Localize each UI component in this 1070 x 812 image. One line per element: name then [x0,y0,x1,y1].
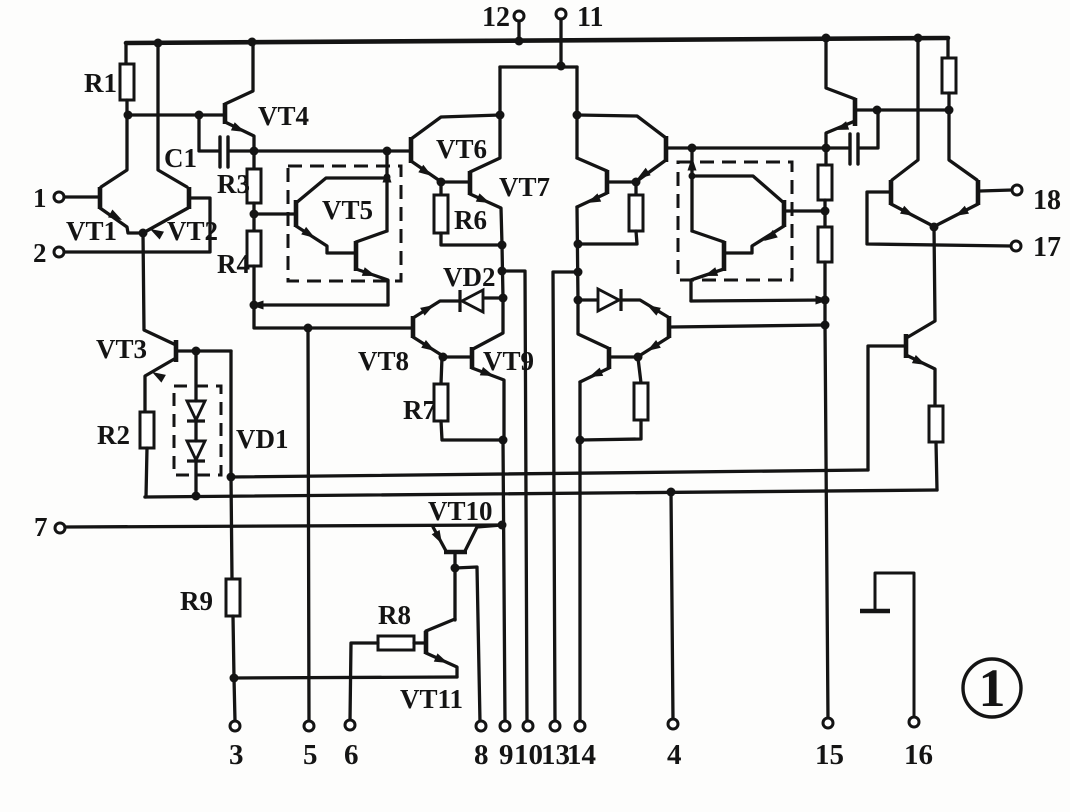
wire VT9b base [611,355,638,358]
transistor VT9 emitter arrow [480,367,494,376]
svg-text:R8: R8 [378,600,411,630]
transistor VT9b emitter [580,368,609,382]
capacitor C1b [848,134,851,164]
capacitor C1 [218,137,221,167]
wire R2b bottom [936,442,937,490]
transistor VT5c emitter arrow [764,230,778,241]
node rail-right-col [914,34,923,43]
svg-text:R3: R3 [217,169,250,199]
ground bar [860,609,890,614]
pin 7 terminal [55,523,65,533]
pin 18 terminal [1012,185,1022,195]
svg-text:10: 10 [514,739,543,771]
node VD1 bottom on rail [192,492,201,501]
transistor VT9 base bar [470,347,475,369]
transistor VT8b base bar [667,316,672,338]
node VT5c vert join [689,173,696,180]
wire VT9b collector upper [578,300,608,348]
svg-text:VD2: VD2 [443,262,496,292]
wire VT5b emitter return [254,303,388,306]
svg-text:R4: R4 [217,249,250,279]
transistor VT10 emitter arrow [432,530,442,544]
wire pin13 [553,272,578,723]
VT5b dashed box [678,162,792,280]
svg-text:C1: C1 [164,143,197,173]
wire output emitters down [908,227,935,337]
pin 5 terminal [304,721,314,731]
diode VD1 wire bottom [194,461,197,496]
transistor VT7 emitter [470,194,502,245]
transistor VT6b base bar [664,136,669,162]
transistor VT5a collector [296,178,385,203]
wire VT6b base line [668,146,826,149]
wire pin1 to VT1 base [64,195,98,198]
resistor R7b [634,383,648,420]
node VT4be-R3b-C1b [822,144,831,153]
wire VT5a base [254,212,294,215]
svg-text:8: 8 [474,739,489,771]
wire R7b bottom [580,420,641,440]
pin 3 terminal [230,721,240,731]
resistor R1 [120,64,134,100]
wire VT5c base [786,209,823,212]
wire VD2 cathode [413,301,459,318]
pin 9 terminal [500,721,510,731]
wire C1 left [199,115,218,151]
wire R8 left to pin6 [350,643,378,721]
node R4 bottom [250,301,259,310]
svg-text:R6: R6 [454,205,487,235]
transistor VT9 emitter [472,368,504,440]
svg-text:2: 2 [33,238,47,268]
svg-text:VT6: VT6 [436,134,487,164]
wire R9 to pin3 [233,616,235,721]
wire R7 top [441,357,442,384]
transistor VT4b emitter [826,121,855,148]
node VT6be-VT7bb [632,178,641,187]
resistor R2b [929,406,943,442]
node VT10 base [451,564,460,573]
wire pin9 lower [503,440,505,723]
svg-text:17: 17 [1033,232,1061,263]
transistor VT11 emitter arrow [434,653,448,663]
transistor VT5a emitter arrow [301,227,315,238]
wire R1 bottom to VT1 collector [101,100,127,187]
diode VD1 wire top [194,351,197,401]
wire VD2b anode stub [578,298,597,301]
wire C1b right [860,111,878,148]
svg-text:VT3: VT3 [96,334,147,364]
pin 15 terminal [823,718,833,728]
resistor R7 [434,384,448,421]
wire pin7 rail [65,525,502,527]
resistor R9 [226,579,240,616]
transistor VT4 emitter [225,122,254,151]
wire pin4 [671,492,673,721]
pin 17 terminal [1011,241,1021,251]
svg-text:16: 16 [904,739,933,771]
node R6b-VT7be [574,240,583,249]
node R7-pin9 [499,436,508,445]
node VT8be-R7b [634,353,643,362]
diode VD2 cathode bar [458,290,461,312]
wire VT4b base line [857,108,949,111]
pin 11 terminal [556,9,566,19]
transistor VT5c emitter [726,226,784,253]
svg-text:1: 1 [979,658,1006,718]
wire VD1col to R9 [231,477,232,579]
transistor VT9b emitter arrow [589,368,603,377]
transistor VT8b emitter [639,337,669,356]
wire VT5c common vertical [690,148,693,231]
wire QR base to pin18 [980,190,1012,191]
transistor VT11 collector [426,619,455,631]
wire rail right end [946,38,949,58]
node bias rail left end [227,473,236,482]
transistor VT6 emitter arrow [418,165,432,176]
node R3-R4 [250,210,259,219]
transistor VT8 collector arrow [420,305,434,316]
pin 16 terminal [909,717,919,727]
wire R4bcol down [823,300,826,325]
resistor R8 [378,636,414,650]
wire VT3b base [868,346,904,470]
svg-text:1: 1 [33,183,47,213]
wire bias rail upper [231,470,868,477]
resistor R6b [629,195,643,231]
transistor VT8 emitter [413,337,443,356]
node C1 tap [195,111,204,120]
node VT7col-VT6col [496,111,505,120]
transistor VT4b emitter arrow [835,121,849,130]
wire VT8b base line [671,325,825,327]
svg-text:14: 14 [567,739,596,771]
wire diffpair tail [143,233,176,345]
transistor VT6 base bar [409,137,414,163]
transistor VT5c collector [692,176,784,203]
transistor VT3 emitter arrow [152,372,166,383]
wire rail to VT2 collector [158,43,187,187]
wire railcol to output left collector [892,38,918,180]
transistor VT6b emitter [637,160,666,181]
transistor QL emitter arrow [900,206,914,216]
wire VT10 base to pin8 [455,567,480,722]
wire center top [500,65,577,68]
pin 12 terminal [514,11,524,21]
wire VT9 collector upper [473,298,503,349]
transistor VT11 emitter [426,653,457,677]
pin 6 terminal [345,720,355,730]
transistor VT1 emitter arrow [108,210,122,221]
transistor VT8 emitter arrow [421,340,435,351]
wire R3b top [824,148,827,165]
node VT8e-R7 [439,353,448,362]
wire R4col to VT8 base [254,305,411,328]
node rail-VT4b-col [822,34,831,43]
wire VT7b base [609,180,636,183]
svg-text:9: 9 [499,739,514,771]
transistor VT4 collector [225,43,253,104]
transistor VT8b collector arrow [647,305,661,316]
svg-text:VT11: VT11 [400,684,463,714]
transistor VT5a emitter [296,226,354,253]
transistor VT4b base bar [853,98,858,126]
transistor VT2 base bar [187,187,192,209]
transistor VT5 emitter-up arrow [383,169,392,183]
wire R6 bottom [441,233,502,245]
wire R7 bottom [441,421,503,440]
transistor VT5d collector [692,231,724,242]
svg-text:3: 3 [229,739,244,771]
wire VT9 base [443,355,470,358]
wire pin14 lower [578,382,581,723]
wire R7b top [638,358,641,383]
diode VD2b triangle [598,289,619,311]
transistor VT4 base bar [223,103,228,124]
pin 2 terminal [54,247,64,257]
transistor VT7 base bar [468,171,473,195]
svg-text:R7: R7 [403,395,436,425]
wire VT4 base line [128,113,223,116]
wire VD2 anode stub [484,296,503,299]
transistor VT10 collector [465,525,502,551]
transistor VT3b emitter [906,355,935,406]
wire C1 right [230,149,252,152]
transistor QR base bar [976,180,981,205]
diode VD2b cathode bar [619,289,622,311]
node pin15 top [821,321,830,330]
svg-text:11: 11 [577,2,603,33]
svg-text:VT9: VT9 [483,346,534,376]
node output emitters [930,223,939,232]
resistor R6 [434,195,448,233]
transistor QR emitter [935,204,978,226]
transistor VT5b base bar [354,241,359,271]
svg-text:VT7: VT7 [499,172,550,202]
transistor VT5a base bar [294,200,299,227]
wire VT2 base to pin2 [64,198,210,252]
wire bottom bias line [234,677,457,678]
node VT5 tap [383,147,392,156]
node C1b top [873,106,882,115]
wire VD2b cathode [622,300,668,317]
node R1b bottom [945,106,954,115]
node VD2 anode [499,294,508,303]
svg-text:15: 15 [815,739,844,771]
transistor VT2 emitter arrow [150,229,164,240]
VT5 dashed box [288,166,401,281]
diode VD2 triangle [462,290,483,312]
pin 13 terminal [550,721,560,731]
wire pin10 [502,271,527,723]
transistor VT5b emitter [356,269,388,305]
svg-text:R9: R9 [180,586,213,616]
wire R1bcol to output right collector [949,110,977,180]
node pin11-junction [557,62,566,71]
wire C1b left [826,146,848,149]
transistor QR emitter arrow [955,206,969,216]
transistor VT4 emitter arrow [231,122,245,132]
svg-text:VT10: VT10 [428,496,493,526]
node VT1-VT2 emitters [139,229,148,238]
wire VT5 common vertical [385,151,388,231]
transistor VT6 collector [411,115,500,139]
transistor VT10 base bar [444,550,467,555]
diode VD1 lower diode [187,441,205,460]
transistor VT7 emitter arrow [476,193,490,203]
svg-text:18: 18 [1033,185,1061,216]
svg-text:VT5: VT5 [322,195,373,225]
wire VT7b collector top [575,67,578,158]
transistor QL base bar [889,180,894,205]
node pin7-pin9 junction [498,521,507,530]
node pin13 tap [574,268,583,277]
transistor VT5d base bar [722,241,727,271]
wire VT7 base [441,180,468,183]
pin 10 terminal [523,721,533,731]
wire R6b bottom [578,231,637,244]
node R1 bottom [124,111,133,120]
transistor VT5c emitter-up arrow [688,157,697,171]
ground wire [875,573,914,719]
diode VD1 wire mid [194,421,197,441]
wire rail to R1 [124,43,127,64]
pin 1 terminal [54,192,64,202]
svg-text:R1: R1 [84,68,117,98]
node R6-VT7e [498,241,507,250]
transistor VT7 collector [470,67,500,172]
svg-text:VT1: VT1 [66,216,117,246]
wire R4b bottom [823,262,826,300]
transistor VT3 emitter [145,358,176,412]
figure number circled 1 [963,659,1021,717]
wire R3-R4 [252,203,255,231]
node pin4 tap [667,488,676,497]
wire R2 bottom [145,448,147,497]
pin 14 terminal [575,721,585,731]
node R3b-R4b [821,207,830,216]
transistor QL emitter [891,204,933,226]
transistor VT5b collector [356,231,387,242]
svg-text:12: 12 [482,2,510,33]
node VD2b anode [574,296,583,305]
node R7b-pin14 [576,436,585,445]
transistor VT5b emitter arrow [362,267,376,276]
transistor VT7b collector [577,158,607,171]
wire VT7b emitter down [577,207,578,300]
wire VT7e down [502,245,503,298]
node R9 bottom [230,674,239,683]
transistor VT2 emitter [143,208,188,233]
node VT4e-R3-C1 [250,147,259,156]
wire R1b bottom [947,93,950,110]
wire R4 bottom [252,266,255,305]
transistor VT6b emitter arrow [637,168,651,179]
wire VD1 right branch [229,351,232,477]
node rail-VT2col [154,39,163,48]
wire bias rail lower [145,490,937,497]
node VT6b col node [573,111,582,120]
wire VT10 base to VT11 collector [453,568,456,620]
transistor VT9b base bar [607,347,612,369]
pin 4 terminal [668,719,678,729]
node VT3 base-VD1 [192,347,201,356]
wire QL base to pin17 [867,192,1011,246]
pin 8 terminal [476,721,486,731]
svg-text:5: 5 [303,739,318,771]
transistor VT7b emitter [577,193,607,207]
wire R8 right [414,641,424,644]
diode VD1 dashed box [174,386,221,475]
svg-text:6: 6 [344,739,359,771]
wire R6b top [634,182,637,195]
transistor VT3 base bar [174,340,179,362]
transistor VT3b emitter arrow [912,355,926,365]
wire VT5d emitter return [691,300,825,301]
transistor VT11 base bar [424,631,429,654]
transistor VT1 base bar [98,187,103,209]
resistor R4b [818,227,832,262]
diode VD1 upper diode [187,401,205,420]
node pin5 tap [304,324,313,333]
resistor R2 [140,412,154,448]
wire pin15 [825,325,828,720]
transistor VT10 emitter [433,526,446,551]
transistor VT4b collector [826,38,855,99]
transistor VT5c base bar [782,200,787,227]
svg-text:VT4: VT4 [258,101,309,131]
transistor VT7b emitter arrow [587,193,601,203]
transistor VT5d emitter [691,269,724,301]
node C1b-line tap [688,144,697,153]
transistor VT6b collector [577,115,666,138]
node VT6e-VT7b [437,178,446,187]
svg-text:7: 7 [34,512,48,542]
wire R3 top [252,151,255,169]
node R4b bottom [821,296,830,305]
transistor VT7b base bar [605,170,610,194]
resistor R3b [818,165,832,200]
svg-text:13: 13 [541,739,570,771]
transistor VT3b base bar [904,334,909,358]
transistor VT5d emitter arrow [704,267,718,276]
transistor VT6 emitter [411,161,440,181]
node rail-VT4col [248,38,257,47]
wire VT3 base [178,349,231,352]
resistor R4 [247,231,261,266]
wire R3b-R4b [823,200,826,227]
wire VT6 base line [254,149,409,152]
node rail-pin12 [515,37,524,46]
resistor R3 [247,169,261,203]
wire R6 top [439,182,442,195]
resistor R1b [942,58,956,93]
svg-text:VD1: VD1 [236,424,289,454]
wire pin5 [308,328,309,723]
svg-text:VT8: VT8 [358,346,409,376]
node pin10 tap [498,267,507,276]
transistor VT10 base lead [453,552,456,568]
svg-text:R2: R2 [97,420,130,450]
node VT5 vert join [384,174,391,181]
transistor VT8 base bar [411,316,416,338]
svg-text:4: 4 [667,739,682,771]
wire V+ top rail [126,38,948,43]
transistor VT8b emitter arrow [647,340,661,351]
transistor VT1 emitter [100,208,143,233]
